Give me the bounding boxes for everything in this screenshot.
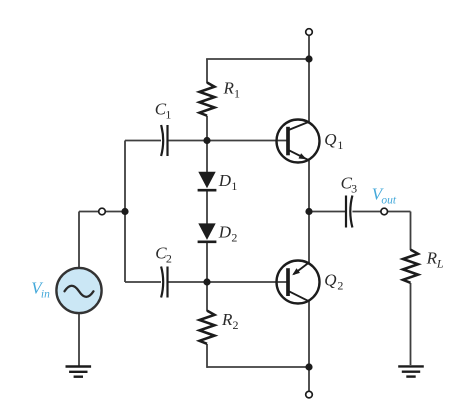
svg-text:1: 1 <box>337 138 343 152</box>
svg-text:Q: Q <box>324 270 336 289</box>
svg-text:L: L <box>436 257 444 271</box>
svg-text:3: 3 <box>351 182 357 196</box>
svg-text:1: 1 <box>231 179 237 193</box>
svg-text:out: out <box>381 195 397 207</box>
svg-text:2: 2 <box>166 252 172 266</box>
svg-text:D: D <box>218 222 232 241</box>
svg-text:R: R <box>221 310 233 329</box>
svg-text:1: 1 <box>165 107 171 121</box>
svg-text:2: 2 <box>233 318 239 332</box>
svg-text:R: R <box>223 79 235 98</box>
svg-text:R: R <box>426 249 438 268</box>
svg-text:2: 2 <box>231 230 237 244</box>
svg-text:1: 1 <box>234 87 240 101</box>
svg-text:in: in <box>41 289 50 301</box>
svg-text:Q: Q <box>324 130 336 149</box>
svg-text:D: D <box>218 171 232 190</box>
svg-text:2: 2 <box>337 278 343 292</box>
